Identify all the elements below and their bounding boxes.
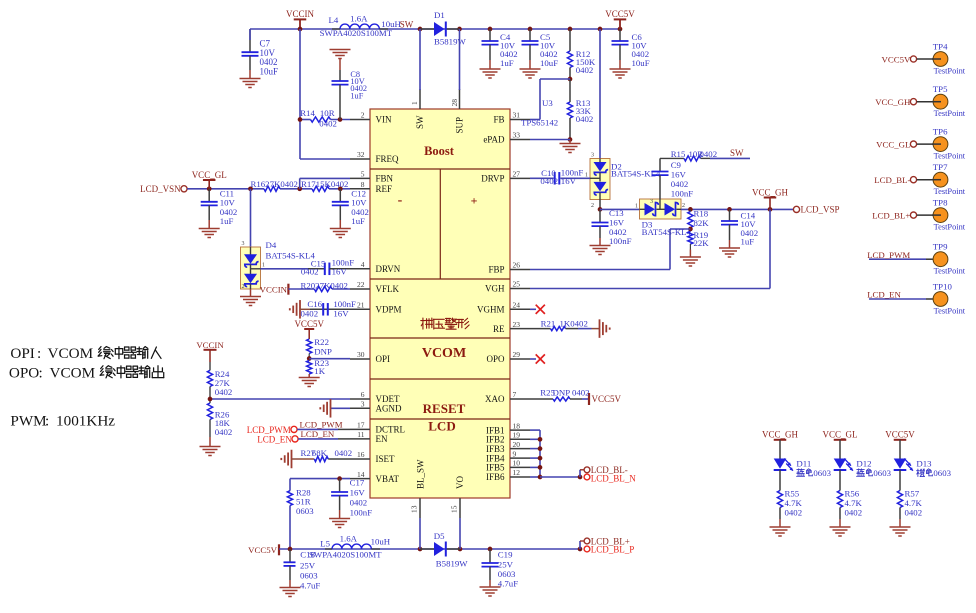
svg-text:0402: 0402 [301,308,319,318]
svg-text:VCC_GL: VCC_GL [876,140,910,150]
svg-text:0402: 0402 [540,176,558,186]
svg-text:LCD_BL+: LCD_BL+ [872,211,910,221]
svg-text:VCC5V: VCC5V [882,54,911,64]
svg-text:VGHM: VGHM [477,305,505,315]
svg-text:XAO: XAO [485,394,505,404]
svg-text:0603: 0603 [300,570,318,580]
svg-text:D11: D11 [796,458,811,468]
svg-text:SWPA4020S100MT: SWPA4020S100MT [320,28,393,38]
svg-text:0402: 0402 [845,507,863,517]
svg-text:L5: L5 [320,539,330,549]
svg-text:R1715K0402: R1715K0402 [301,179,348,189]
svg-text:0402: 0402 [576,65,594,75]
svg-text:VCOM: VCOM [50,364,96,381]
svg-text:R18: R18 [694,209,709,219]
svg-text:13: 13 [410,505,419,513]
svg-text:VCCIN: VCCIN [260,285,288,295]
svg-text:VCOM: VCOM [48,345,94,362]
svg-text:LCD_PWM: LCD_PWM [300,420,343,430]
svg-text:-: - [398,193,403,208]
svg-text:C9: C9 [671,160,682,170]
svg-text:RE: RE [493,324,505,334]
svg-text:68K: 68K [312,448,328,458]
svg-text:1uF: 1uF [500,58,514,68]
svg-text:0402: 0402 [700,149,718,159]
svg-text:22K: 22K [694,238,710,248]
svg-text:VCC5V: VCC5V [248,545,277,555]
svg-text:100nF: 100nF [350,508,373,518]
svg-text:VCC5V: VCC5V [605,9,635,19]
svg-text:OPO: OPO [486,354,505,364]
svg-text:OPI: OPI [10,345,34,362]
svg-text:16V: 16V [333,308,349,318]
svg-text:LCD_EN: LCD_EN [301,429,335,439]
svg-text:R1627K0402: R1627K0402 [251,179,298,189]
svg-text:LCD_PWM: LCD_PWM [867,250,910,260]
svg-text:B5819W: B5819W [436,559,468,569]
svg-text:VBAT: VBAT [376,474,400,484]
svg-text:LCD_BL-: LCD_BL- [874,175,910,185]
svg-text:0603: 0603 [933,468,951,478]
svg-text:23: 23 [513,320,521,329]
svg-text:22: 22 [357,280,365,289]
svg-text:1.6A: 1.6A [350,13,368,23]
svg-text:FBP: FBP [488,265,504,275]
svg-text:21: 21 [357,301,365,310]
svg-text:0603: 0603 [873,468,891,478]
svg-text:20: 20 [513,440,521,449]
svg-text:16V: 16V [332,267,348,277]
svg-text:D5: D5 [434,531,445,541]
svg-text:SUP: SUP [455,117,465,134]
svg-text:0402: 0402 [215,387,233,397]
svg-text:FB: FB [493,115,504,125]
svg-text:1uF: 1uF [350,91,363,100]
svg-text:1K: 1K [314,366,325,376]
svg-text:OPI: OPI [376,354,391,364]
svg-text:RESET: RESET [423,401,466,416]
svg-text:10uF: 10uF [540,58,558,68]
svg-text:TestPoint: TestPoint [934,66,966,75]
svg-text:16V: 16V [671,170,687,180]
svg-text:16V: 16V [561,176,577,186]
svg-text:26: 26 [513,261,521,270]
svg-text:0402: 0402 [215,427,233,437]
svg-text:VDPM: VDPM [376,305,402,315]
svg-text:TestPoint: TestPoint [934,152,966,161]
svg-text:VCC_GH: VCC_GH [752,187,789,197]
svg-text:SW: SW [415,115,425,129]
svg-text:VCC5V: VCC5V [294,319,324,329]
svg-text:LCD_PWM: LCD_PWM [247,425,291,435]
svg-text:SWPA4020S100MT: SWPA4020S100MT [309,549,382,559]
svg-text:OPO: OPO [9,364,39,381]
svg-text:10uF: 10uF [260,66,279,76]
svg-text:19: 19 [513,431,521,440]
svg-text:D13: D13 [916,458,932,468]
svg-text:VCOM: VCOM [422,346,466,361]
svg-text:1uF: 1uF [741,237,755,247]
svg-text:0402: 0402 [350,498,368,508]
svg-text:0603: 0603 [498,569,516,579]
svg-text:BL_SW: BL_SW [416,459,426,489]
svg-text:LCD_EN: LCD_EN [867,290,901,300]
svg-text:SW: SW [730,148,744,158]
svg-text:TP6: TP6 [933,127,948,137]
svg-text:0603: 0603 [813,468,831,478]
svg-text:VO: VO [455,476,465,489]
svg-text:0402: 0402 [335,448,353,458]
svg-text:VCC_GL: VCC_GL [822,430,857,440]
svg-text:15: 15 [450,505,459,513]
svg-text:IFB3: IFB3 [486,444,505,454]
svg-text:FREQ: FREQ [376,154,400,164]
svg-text:D4: D4 [266,240,277,250]
svg-text:TP9: TP9 [933,242,948,252]
svg-text:VCCIN: VCCIN [286,9,315,19]
svg-text:1.6A: 1.6A [340,534,358,544]
svg-text:0402: 0402 [576,114,594,124]
svg-text::: : [37,345,41,362]
svg-text:100nF: 100nF [609,236,632,246]
svg-text:LCD_BL_N: LCD_BL_N [591,473,637,483]
svg-text:BAT54S-KL4: BAT54S-KL4 [611,169,661,179]
svg-text:2: 2 [361,111,365,120]
svg-text:4: 4 [361,260,365,269]
svg-text:SW: SW [400,20,414,30]
svg-text:VCC_GH: VCC_GH [875,97,911,107]
svg-text:0402: 0402 [319,118,337,128]
svg-text:L4: L4 [329,15,339,25]
svg-text:TP4: TP4 [933,42,948,52]
svg-text:C17: C17 [350,477,365,487]
svg-text:TestPoint: TestPoint [934,223,966,232]
svg-text:DNP 0402: DNP 0402 [553,387,590,397]
svg-text:10: 10 [513,459,521,468]
svg-text:DRVP: DRVP [481,174,504,184]
svg-text:D12: D12 [856,458,871,468]
svg-text:5: 5 [361,170,365,179]
svg-text:REF: REF [376,184,393,194]
svg-text:16V: 16V [350,487,366,497]
svg-text:VCC_GH: VCC_GH [762,430,799,440]
svg-text:FBN: FBN [376,174,394,184]
svg-text:C19: C19 [498,550,513,560]
svg-text:LCD: LCD [428,418,455,433]
svg-text:31: 31 [513,111,521,120]
svg-text:3: 3 [361,400,365,409]
svg-text:1: 1 [410,101,419,105]
svg-text:28: 28 [450,99,459,107]
svg-text:10uF: 10uF [632,58,650,68]
svg-text:VCC5V: VCC5V [885,430,915,440]
svg-text:29: 29 [513,350,521,359]
svg-text:18: 18 [513,421,521,430]
svg-text:30: 30 [357,350,365,359]
svg-text:1001KHz: 1001KHz [56,413,115,430]
svg-text:3: 3 [650,199,653,205]
svg-text:LCD_EN: LCD_EN [257,434,292,444]
svg-text:24: 24 [513,301,521,310]
svg-text:0603: 0603 [296,506,314,516]
svg-text:VCC5V: VCC5V [592,394,622,404]
svg-text:TPS65142: TPS65142 [521,118,558,128]
svg-text:25V: 25V [300,560,316,570]
svg-text:25V: 25V [498,559,514,569]
svg-text:3: 3 [591,153,594,159]
svg-text:1K0402: 1K0402 [560,318,588,328]
svg-text:VCC_GL: VCC_GL [192,170,227,180]
svg-text:TestPoint: TestPoint [934,306,966,315]
svg-text:1: 1 [635,203,638,209]
svg-text:VFLK: VFLK [376,284,400,294]
svg-text:LCD_VSP: LCD_VSP [801,205,840,215]
svg-text:10R: 10R [320,108,335,118]
svg-text:7: 7 [513,390,517,399]
svg-text::: : [39,364,43,381]
svg-text:0402: 0402 [785,507,803,517]
svg-text:17: 17 [357,421,365,430]
svg-text:0402: 0402 [671,179,689,189]
svg-text:3: 3 [242,241,245,247]
svg-text:82K: 82K [694,218,710,228]
svg-text:6: 6 [361,390,365,399]
svg-text:VIN: VIN [376,115,392,125]
svg-text:R21: R21 [541,318,556,328]
svg-text:VGH: VGH [485,284,505,294]
svg-text:R2027K0402: R2027K0402 [301,280,348,290]
svg-text:LCD_VSN: LCD_VSN [140,184,181,194]
svg-text:BAT54S-KL4: BAT54S-KL4 [266,250,316,260]
svg-text::: : [45,413,49,430]
svg-text:DNP: DNP [314,346,332,356]
svg-text:R15: R15 [671,149,686,159]
svg-text:AGND: AGND [376,404,402,414]
svg-text:U3: U3 [542,98,553,108]
svg-text:1: 1 [262,263,265,269]
svg-text:4.7uF: 4.7uF [498,579,518,589]
svg-text:51R: 51R [296,497,311,507]
svg-text:25: 25 [513,280,521,289]
svg-text:1uF: 1uF [351,216,365,226]
svg-text:9: 9 [513,449,517,458]
svg-text:11: 11 [357,430,364,439]
svg-text:2: 2 [591,203,594,209]
svg-text:16: 16 [357,450,365,459]
svg-text:VCCIN: VCCIN [196,340,224,350]
svg-text:27: 27 [513,170,521,179]
svg-text:LCD_BL_P: LCD_BL_P [591,544,635,554]
svg-text:EN: EN [376,434,388,444]
svg-text:TestPoint: TestPoint [934,187,966,196]
svg-text:100nF: 100nF [671,189,694,199]
svg-text:Boost: Boost [424,144,455,158]
svg-text:TP7: TP7 [933,162,948,172]
svg-text:R14: R14 [300,108,315,118]
svg-text:2: 2 [682,203,685,209]
svg-text:ISET: ISET [376,454,396,464]
svg-text:12: 12 [513,468,521,477]
svg-text:TestPoint: TestPoint [934,109,966,118]
svg-text:32: 32 [357,150,365,159]
svg-text:1uF: 1uF [220,216,234,226]
svg-text:TP10: TP10 [933,282,953,292]
svg-text:DRVN: DRVN [376,264,401,274]
svg-text:TestPoint: TestPoint [934,267,966,276]
svg-text:33: 33 [513,131,521,140]
svg-text:IFB6: IFB6 [486,472,505,482]
svg-text:+: + [471,194,478,208]
svg-text:D1: D1 [434,10,445,20]
svg-text:TP8: TP8 [933,198,948,208]
svg-text:2: 2 [242,284,245,290]
svg-text:IFB5: IFB5 [486,463,505,473]
svg-text:TP5: TP5 [933,84,948,94]
svg-text:0402: 0402 [301,267,319,277]
svg-text:B5819W: B5819W [434,37,466,47]
svg-text:ePAD: ePAD [483,135,505,145]
svg-text:10uH: 10uH [371,537,391,547]
svg-text:4.7uF: 4.7uF [300,580,320,590]
svg-text:0402: 0402 [905,507,923,517]
svg-text:PWM: PWM [10,413,47,430]
svg-text:DCTRL: DCTRL [376,425,406,435]
